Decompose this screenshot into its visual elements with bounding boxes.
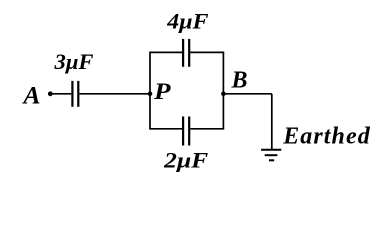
svg-text:P: P	[153, 79, 172, 104]
wire left vertical branch at node P	[149, 52, 151, 128]
wire ground drop vertical	[271, 94, 273, 150]
capacitor C1 (3uF) plates	[72, 81, 78, 107]
svg-text:B: B	[231, 67, 248, 93]
svg-text:Earthed: Earthed	[282, 123, 371, 149]
wire node A to capacitor C1	[50, 93, 71, 95]
wire capacitor C1 to node P	[79, 93, 150, 95]
wire top branch left segment	[149, 51, 182, 53]
wire right vertical branch at node B	[222, 52, 224, 128]
wire bottom branch right segment	[190, 128, 224, 130]
ground symbol	[261, 150, 281, 161]
capacitor C3 (2uF) plates	[183, 117, 189, 146]
capacitor C2 (4uF) plates	[183, 39, 189, 67]
wire node B to ground corner	[223, 93, 271, 95]
svg-text:3μF: 3μF	[53, 49, 93, 74]
svg-text:A: A	[21, 83, 40, 110]
node B junction dot	[221, 92, 226, 97]
wire bottom branch left segment	[149, 128, 182, 130]
svg-text:2μF: 2μF	[163, 148, 208, 173]
node A terminal dot	[48, 91, 53, 96]
svg-text:4μF: 4μF	[166, 9, 208, 34]
node P junction dot	[148, 92, 153, 97]
wire top branch right segment	[190, 51, 224, 53]
